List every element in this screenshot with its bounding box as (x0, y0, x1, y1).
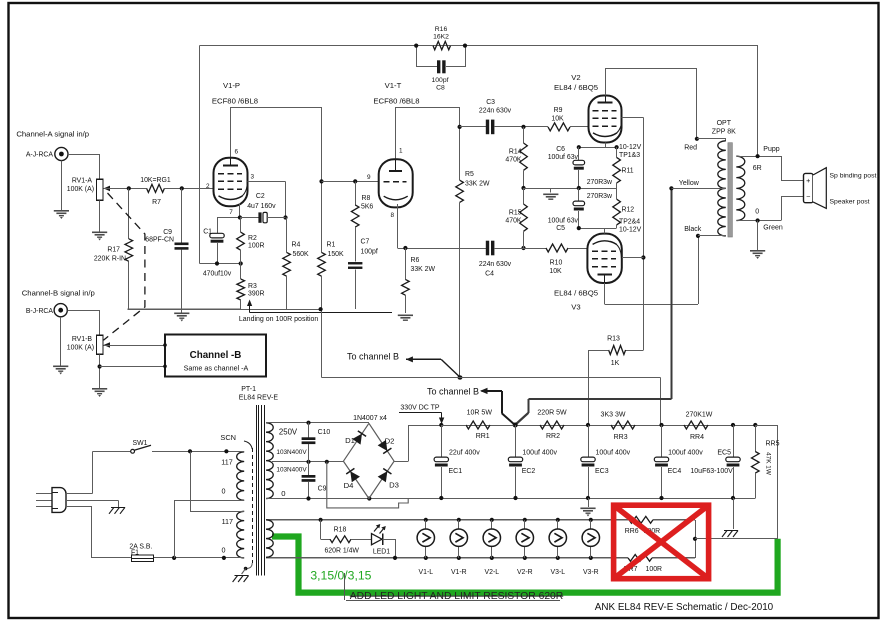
svg-text:R5: R5 (465, 171, 474, 178)
svg-text:To channel B: To channel B (427, 387, 479, 397)
svg-text:OPT: OPT (717, 120, 732, 127)
svg-text:8: 8 (390, 212, 394, 219)
svg-text:B-J-RCA: B-J-RCA (26, 308, 54, 315)
svg-text:270K1W: 270K1W (686, 411, 713, 418)
svg-text:220K R-IN: 220K R-IN (94, 256, 126, 263)
svg-text:R10: R10 (550, 260, 563, 267)
svg-text:224n 630v: 224n 630v (479, 261, 512, 268)
svg-text:RR5: RR5 (766, 440, 780, 447)
svg-text:220R 5W: 220R 5W (537, 410, 567, 417)
svg-text:R13: R13 (607, 336, 620, 343)
svg-text:Yellow: Yellow (679, 180, 700, 187)
svg-text:C9: C9 (163, 229, 172, 236)
svg-text:+: + (806, 176, 810, 185)
svg-text:10K: 10K (551, 116, 564, 123)
svg-text:A-J-RCA: A-J-RCA (26, 152, 54, 159)
svg-text:0: 0 (281, 489, 285, 498)
svg-text:V3-R: V3-R (583, 569, 599, 576)
svg-text:3K3 3W: 3K3 3W (601, 411, 626, 418)
svg-text:100K (A): 100K (A) (67, 345, 94, 352)
svg-text:RR4: RR4 (690, 434, 704, 441)
svg-text:10K=RG1: 10K=RG1 (140, 177, 171, 184)
svg-text:Same as channel -A: Same as channel -A (184, 364, 249, 373)
svg-text:TP1&3: TP1&3 (619, 152, 640, 159)
svg-text:C5: C5 (556, 225, 565, 232)
svg-text:47K 1W: 47K 1W (765, 452, 772, 476)
svg-text:RR3: RR3 (614, 434, 628, 441)
svg-text:33K 2W: 33K 2W (465, 181, 490, 188)
svg-text:100K (A): 100K (A) (67, 186, 94, 193)
svg-text:R6: R6 (411, 257, 420, 264)
svg-text:470K: 470K (505, 157, 521, 164)
svg-text:V2-L: V2-L (485, 569, 500, 576)
svg-text:103N400V: 103N400V (276, 467, 307, 474)
svg-text:V2: V2 (571, 73, 580, 82)
svg-text:D3: D3 (389, 481, 399, 490)
svg-text:D4: D4 (344, 481, 355, 490)
svg-text:Channel-A signal in/p: Channel-A signal in/p (16, 130, 89, 139)
svg-text:270R3w: 270R3w (587, 193, 612, 200)
svg-text:470uf10v: 470uf10v (203, 271, 232, 278)
svg-text:R2: R2 (248, 235, 257, 242)
svg-text:117: 117 (222, 517, 233, 526)
svg-text:EL84 / 6BQ5: EL84 / 6BQ5 (554, 289, 598, 298)
svg-text:100uf 63v: 100uf 63v (548, 217, 579, 224)
svg-text:V3: V3 (571, 303, 580, 312)
svg-text:6: 6 (235, 149, 239, 156)
svg-text:PT-1: PT-1 (241, 386, 256, 393)
svg-text:EC1: EC1 (449, 468, 463, 475)
svg-text:Sp binding post: Sp binding post (830, 173, 877, 180)
svg-text:RR1: RR1 (476, 433, 490, 440)
svg-text:Speaker post: Speaker post (830, 199, 870, 206)
svg-text:R17: R17 (107, 247, 120, 254)
svg-text:16K2: 16K2 (433, 34, 449, 41)
svg-text:EC3: EC3 (595, 468, 609, 475)
svg-text:22uf 400v: 22uf 400v (449, 450, 480, 457)
svg-text:R3: R3 (248, 283, 257, 290)
svg-text:Channel -B: Channel -B (190, 350, 242, 361)
svg-text:10K: 10K (549, 268, 562, 275)
svg-text:SW1: SW1 (133, 440, 148, 447)
svg-text:To channel B: To channel B (347, 352, 399, 362)
svg-text:EL84 / 6BQ5: EL84 / 6BQ5 (554, 83, 598, 92)
svg-text:R11: R11 (622, 168, 634, 175)
svg-text:D1: D1 (345, 436, 355, 445)
svg-text:Red: Red (684, 145, 697, 152)
svg-text:117: 117 (221, 458, 232, 467)
svg-text:10uF63-100V: 10uF63-100V (690, 468, 733, 475)
svg-text:250V: 250V (279, 428, 298, 437)
svg-text:SCN: SCN (220, 433, 236, 442)
svg-text:5K6: 5K6 (361, 204, 373, 211)
svg-text:R16: R16 (435, 26, 448, 33)
svg-text:68PF-CN: 68PF-CN (145, 237, 174, 244)
svg-text:100R: 100R (248, 242, 264, 249)
svg-text:10R 5W: 10R 5W (467, 410, 493, 417)
svg-text:R18: R18 (334, 526, 347, 533)
svg-text:C7: C7 (361, 239, 370, 246)
svg-text:C3: C3 (486, 99, 495, 106)
svg-text:103N400V: 103N400V (276, 449, 307, 456)
svg-text:D2: D2 (385, 437, 395, 446)
svg-text:V1-T: V1-T (385, 81, 402, 90)
svg-text:V1-L: V1-L (419, 569, 434, 576)
svg-text:33K 2W: 33K 2W (411, 266, 436, 273)
svg-text:R14: R14 (509, 149, 522, 156)
svg-text:EL84 REV-E: EL84 REV-E (239, 395, 279, 402)
svg-text:100uf 400v: 100uf 400v (522, 450, 557, 457)
svg-text:EC4: EC4 (668, 468, 682, 475)
svg-text:100uf 63v: 100uf 63v (548, 154, 579, 161)
svg-text:2: 2 (206, 183, 210, 190)
svg-text:C10: C10 (318, 429, 331, 436)
svg-text:RV1-B: RV1-B (72, 336, 93, 343)
svg-text:100uf 400v: 100uf 400v (596, 450, 631, 457)
svg-text:ECF80 /6BL8: ECF80 /6BL8 (212, 97, 258, 106)
svg-text:C2: C2 (256, 193, 265, 200)
svg-text:1: 1 (399, 148, 403, 155)
svg-text:−: − (806, 192, 810, 201)
svg-text:150K: 150K (328, 251, 344, 258)
svg-text:10-12V: 10-12V (619, 144, 642, 151)
svg-text:RR2: RR2 (546, 433, 560, 440)
svg-text:7: 7 (229, 209, 233, 216)
svg-text:0: 0 (755, 208, 759, 215)
svg-text:ANK EL84 REV-E Schematic / Dec: ANK EL84 REV-E Schematic / Dec-2010 (595, 602, 774, 613)
svg-text:100uf 400v: 100uf 400v (668, 450, 703, 457)
svg-text:Landing on 100R position: Landing on 100R position (239, 316, 319, 323)
svg-text:C4: C4 (485, 271, 494, 278)
svg-text:C6: C6 (556, 146, 565, 153)
svg-text:390R: 390R (248, 291, 264, 298)
svg-text:Pupp: Pupp (763, 146, 779, 153)
svg-text:9: 9 (367, 174, 371, 181)
svg-text:ECF80 /6BL8: ECF80 /6BL8 (373, 97, 419, 106)
svg-text:RV1-A: RV1-A (72, 178, 93, 185)
svg-text:3,15/0/3,15: 3,15/0/3,15 (310, 569, 371, 583)
svg-text:0: 0 (222, 487, 226, 496)
svg-text:10-12V: 10-12V (619, 227, 642, 234)
svg-text:4u7 160v: 4u7 160v (247, 203, 276, 210)
svg-text:EC2: EC2 (522, 468, 536, 475)
svg-text:R12: R12 (622, 207, 635, 214)
svg-text:1K: 1K (611, 360, 620, 367)
svg-text:100pf: 100pf (361, 249, 378, 256)
svg-text:Channel-B signal in/p: Channel-B signal in/p (22, 289, 95, 298)
svg-text:V2-R: V2-R (517, 569, 533, 576)
svg-text:R8: R8 (362, 195, 371, 202)
svg-text:Black: Black (684, 226, 702, 233)
svg-text:C8: C8 (436, 85, 445, 92)
svg-text:R15: R15 (509, 210, 522, 217)
svg-text:R9: R9 (554, 107, 563, 114)
svg-text:V1-P: V1-P (223, 81, 240, 90)
svg-text:TP2&4: TP2&4 (619, 218, 640, 225)
svg-text:100R: 100R (646, 566, 662, 573)
svg-text:3: 3 (251, 174, 255, 181)
svg-text:1N4007 x4: 1N4007 x4 (353, 415, 387, 422)
svg-text:RR6: RR6 (625, 528, 639, 535)
svg-text:V3-L: V3-L (551, 569, 566, 576)
svg-text:224n 630v: 224n 630v (479, 108, 512, 115)
svg-text:270R3w: 270R3w (587, 179, 612, 186)
svg-text:470K: 470K (505, 218, 521, 225)
svg-text:6R: 6R (753, 165, 762, 172)
svg-text:EC5: EC5 (717, 450, 731, 457)
svg-text:560K: 560K (293, 251, 309, 258)
svg-text:C1: C1 (203, 229, 212, 236)
svg-text:330V DC TP: 330V DC TP (400, 405, 439, 412)
svg-text:R4: R4 (292, 242, 301, 249)
svg-text:R1: R1 (327, 242, 336, 249)
svg-text:Green: Green (763, 224, 783, 231)
svg-text:F1: F1 (131, 549, 139, 556)
svg-text:LED1: LED1 (373, 549, 390, 556)
svg-text:ZPP 8K: ZPP 8K (712, 129, 736, 136)
svg-text:V1-R: V1-R (451, 569, 467, 576)
svg-text:C9: C9 (318, 486, 327, 493)
svg-text:R7: R7 (152, 199, 161, 206)
svg-text:100pf: 100pf (431, 77, 448, 84)
svg-text:620R 1/4W: 620R 1/4W (324, 547, 359, 554)
svg-text:0: 0 (222, 546, 226, 555)
